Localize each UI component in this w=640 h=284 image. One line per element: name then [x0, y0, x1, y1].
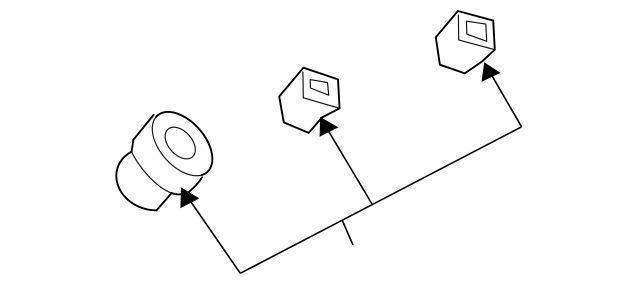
middle nut face left edge [302, 72, 304, 98]
grommet body cap arc [116, 152, 156, 211]
arrowhead at middle nut [320, 117, 338, 136]
middle nut face bottom edge [303, 98, 339, 109]
grommet face rim thin arc [152, 117, 201, 176]
tick stub [342, 220, 353, 245]
right nut square hole [466, 21, 486, 41]
grommet back rim thin arc [132, 152, 172, 193]
right nut outline [436, 11, 495, 73]
leader main diagonal [240, 127, 521, 273]
right nut face left edge [457, 15, 459, 40]
grommet body bottom line [157, 193, 172, 211]
middle nut square hole [310, 80, 329, 96]
grommet hole ellipse [165, 127, 195, 159]
branch line to middle nut [323, 121, 373, 204]
arrowhead at grommet [181, 188, 199, 208]
leader segment to right nut [487, 66, 522, 127]
leader segment to grommet [185, 193, 241, 274]
right nut face bottom edge [459, 40, 495, 50]
grommet outline under arrow [172, 193, 184, 194]
grommet face outer arc [156, 112, 212, 175]
grommet head side line bottom-right [186, 177, 202, 194]
arrowhead at right nut [482, 63, 500, 81]
grommet head top side line and flat [132, 115, 154, 152]
middle nut outline [279, 68, 339, 133]
